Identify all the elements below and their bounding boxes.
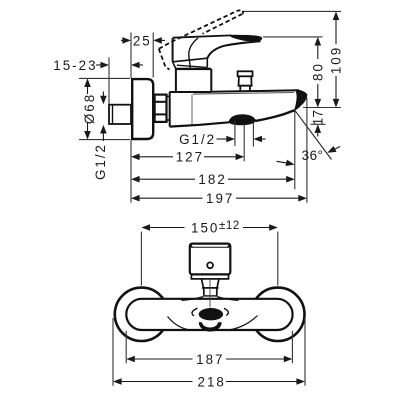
svg-text:15-23: 15-23 (53, 58, 97, 73)
svg-text:182: 182 (198, 172, 226, 187)
svg-text:197: 197 (206, 191, 234, 206)
svg-text:80: 80 (310, 62, 325, 81)
svg-text:109: 109 (329, 46, 344, 74)
svg-text:G1/2: G1/2 (93, 143, 108, 180)
svg-text:25: 25 (133, 33, 152, 48)
svg-text:127: 127 (176, 150, 204, 165)
svg-text:187: 187 (196, 352, 224, 367)
svg-text:17: 17 (310, 110, 325, 126)
svg-text:±12: ±12 (219, 220, 240, 232)
svg-text:218: 218 (198, 374, 226, 389)
svg-text:150: 150 (191, 220, 219, 235)
svg-text:G1/2: G1/2 (179, 132, 216, 147)
svg-text:Ø68: Ø68 (82, 93, 97, 124)
svg-text:36°: 36° (302, 148, 324, 163)
